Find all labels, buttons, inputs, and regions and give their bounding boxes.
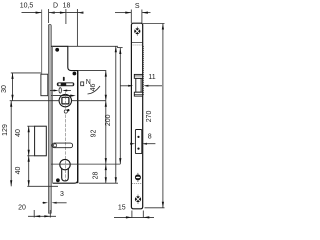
svg-text:40: 40	[15, 167, 22, 175]
roller bolt	[134, 74, 142, 96]
dimension 8 arrows	[130, 143, 135, 145]
dimension 270 line	[162, 24, 164, 208]
dimension 30 line	[12, 73, 14, 101]
arrow 11 right	[143, 85, 148, 87]
arrow axis down	[119, 158, 121, 164]
arrow 15 left	[126, 216, 132, 218]
arrow 8 right	[142, 143, 147, 145]
arrow 129 top	[10, 101, 12, 107]
dimension 15 line	[114, 216, 154, 218]
extension line step level	[78, 70, 106, 72]
oval dimension line left	[50, 90, 55, 92]
extension line stulp bottom	[27, 185, 58, 187]
dimension 46 line	[105, 71, 107, 101]
follower square	[62, 97, 69, 104]
extension line at its top	[117, 47, 123, 49]
arrow tip 10,5 left	[36, 12, 42, 14]
extension line S right	[141, 10, 143, 24]
small vertical slot	[63, 77, 65, 81]
lock case left edge	[52, 46, 54, 183]
follower axis line horizontal right	[72, 100, 106, 102]
dimension line 10,5	[22, 12, 42, 14]
arrow 11 left	[128, 85, 133, 87]
arrow 15 right	[143, 216, 149, 218]
arrow 3 right	[52, 202, 57, 204]
arrow 20 right	[44, 215, 50, 217]
svg-text:S: S	[135, 3, 140, 10]
arrow 40 upper top	[28, 126, 30, 132]
arrow tip D right	[60, 12, 66, 14]
dimension line S tail right	[142, 12, 150, 14]
rivet bottom	[56, 178, 60, 182]
extension line box top left	[27, 125, 34, 127]
cover plate box	[35, 126, 47, 156]
dimension 11 line left	[120, 85, 129, 87]
svg-text:28: 28	[93, 172, 100, 180]
unlabeled dim line case top to cylinder axis	[119, 48, 121, 164]
follower axis line horizontal left	[10, 100, 60, 102]
dimension line 18	[66, 12, 83, 14]
cover plate hole top	[137, 136, 139, 138]
leader arrow at case edge	[70, 95, 76, 97]
lock case right edge thick	[77, 71, 79, 184]
dimension line S	[115, 12, 131, 14]
drive rod	[48, 24, 51, 213]
svg-text:40: 40	[15, 129, 22, 137]
svg-text:15: 15	[118, 205, 126, 212]
arrow 200 bottom	[115, 177, 117, 183]
arrow 28 bottom	[105, 177, 107, 183]
arrow 28 top	[105, 164, 107, 170]
latch cover plate on faceplate	[41, 74, 48, 96]
arrow 92 top	[105, 101, 107, 107]
arrow 46 bottom	[105, 95, 107, 101]
dimension line D	[49, 12, 66, 14]
leader line to case edge	[48, 95, 72, 97]
arrow 200 top	[115, 46, 117, 52]
arrow 30 top	[11, 73, 13, 79]
dimension 3 line right	[55, 202, 67, 204]
oval dimension line right	[66, 90, 71, 92]
svg-text:18: 18	[63, 3, 71, 10]
dimension 8 line	[145, 143, 155, 145]
euro cylinder circle	[60, 159, 70, 169]
right view faceplate strip	[131, 23, 142, 209]
extension line case bottom right	[79, 182, 118, 184]
dimension 20 line	[28, 215, 56, 217]
dimension line 18 tail	[66, 12, 83, 14]
oval dim arrow right	[62, 90, 67, 92]
strip inner line	[131, 42, 142, 44]
svg-text:10,5: 10,5	[20, 3, 34, 10]
dimension 40 upper line	[28, 126, 30, 156]
follower circle	[59, 94, 71, 106]
screw bottom	[135, 195, 141, 204]
svg-text:11: 11	[148, 74, 155, 81]
cover plate hole bottom	[137, 148, 139, 150]
svg-text:46: 46	[90, 84, 97, 92]
arrow 40 lower top	[28, 156, 30, 162]
svg-text:20: 20	[18, 205, 26, 212]
arrow tip 10,5 right outside	[49, 12, 55, 14]
svg-text:270: 270	[146, 110, 153, 122]
dimension 129 line	[10, 101, 12, 187]
arrow 30 bottom	[11, 95, 13, 101]
extension line 20 right	[49, 210, 51, 218]
svg-text:129: 129	[2, 124, 9, 136]
arrow tip S left	[125, 12, 131, 14]
extension line x77.4	[76, 9, 78, 46]
arrow 129 bottom	[10, 180, 12, 186]
horizontal slot lower	[52, 143, 73, 148]
screw top	[134, 27, 140, 36]
dimension 200 line	[115, 46, 117, 183]
extension line x65.9	[65, 9, 67, 24]
svg-text:30: 30	[1, 85, 8, 93]
svg-text:8: 8	[148, 134, 152, 141]
dimension 28 line	[105, 164, 107, 183]
strip hidden dotted line bottom	[132, 183, 143, 185]
center axis vertical	[64, 92, 66, 182]
label square N	[81, 82, 84, 86]
cylinder cover plate	[135, 130, 141, 154]
dimension 40 lower line	[28, 156, 30, 187]
arrow 46 top	[105, 71, 107, 77]
horizontal slot upper	[57, 82, 75, 86]
extension line 15 left	[131, 211, 133, 219]
small adjuster circle below follower	[64, 110, 67, 113]
extension line case top right	[68, 45, 118, 47]
arrow 20 left	[34, 215, 40, 217]
svg-text:3: 3	[60, 191, 64, 198]
extension line 270 bottom	[145, 207, 165, 209]
arrow top up	[119, 48, 121, 54]
extension line 270 top	[143, 23, 165, 25]
strip inner dotted line	[131, 44, 142, 46]
extension line 20 left	[33, 210, 35, 218]
slot lower left hole	[53, 144, 56, 147]
rivet on step	[73, 72, 77, 76]
leader curve 46	[88, 86, 101, 94]
arrow 3 left	[43, 202, 48, 204]
slot upper window right	[66, 83, 73, 85]
arrow tip S right	[142, 12, 148, 14]
svg-text:D: D	[53, 3, 58, 10]
extension line 15 right	[142, 211, 144, 219]
strip hidden edge dotted	[143, 46, 145, 96]
arrow 270 bottom	[162, 202, 164, 208]
extension line box bottom left	[27, 155, 34, 157]
small oval hole	[59, 88, 61, 93]
arrow 40 upper bottom	[28, 150, 30, 156]
extension line x48.6	[48, 9, 50, 23]
arrow 40 lower bottom	[28, 180, 30, 186]
faceplate front edge line	[41, 10, 43, 96]
slot upper window left	[59, 83, 61, 85]
cylinder axis line horizontal	[51, 163, 120, 165]
svg-text:92: 92	[90, 130, 97, 138]
small rivet beside adjuster	[67, 109, 69, 111]
svg-text:200: 200	[105, 114, 112, 126]
rivet top	[55, 48, 59, 52]
dimension 11 line right	[146, 85, 162, 87]
dimension 3 line left	[42, 202, 45, 204]
arrow 92 bottom	[105, 158, 107, 164]
screw middle	[135, 173, 141, 182]
dimension 92 line	[105, 101, 107, 164]
lock case outline	[51, 46, 77, 183]
arrow tip 18 right outside	[77, 12, 83, 14]
oval dim arrow left	[54, 90, 59, 92]
extension line S left	[130, 10, 132, 24]
extension line plate top left	[11, 72, 41, 74]
euro cylinder tab	[62, 169, 69, 181]
arrow 270 top	[162, 24, 164, 30]
